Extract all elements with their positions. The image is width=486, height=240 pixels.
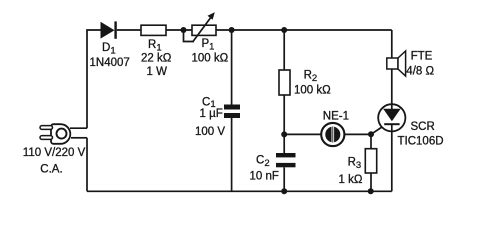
resistor R2 branch <box>279 30 290 134</box>
node junction dot R2 branch top <box>281 27 287 33</box>
thyristor SCR TIC106D <box>378 104 405 131</box>
svg-text:C2: C2 <box>256 155 270 170</box>
svg-text:10 nF: 10 nF <box>250 171 279 183</box>
wire R3 to bottom rail <box>370 173 372 191</box>
svg-text:R3: R3 <box>348 156 362 171</box>
svg-text:4/8 Ω: 4/8 Ω <box>406 66 434 78</box>
label FTE value <box>406 50 434 77</box>
diode D1 <box>101 21 116 38</box>
svg-text:100 kΩ: 100 kΩ <box>192 53 229 65</box>
label mains voltage <box>23 147 86 175</box>
neon lamp NE-1 <box>321 123 344 146</box>
capacitor C1 branch <box>224 30 240 191</box>
label D1 value <box>90 42 130 69</box>
svg-text:NE-1: NE-1 <box>323 110 349 122</box>
label R1 value <box>141 39 172 78</box>
node junction dot R2/NE-1/C2 <box>281 131 287 137</box>
svg-text:C.A.: C.A. <box>40 163 62 175</box>
wire P1 to top-right corner <box>216 29 392 31</box>
node junction dot C1 branch top <box>229 27 235 33</box>
AC plug 110V/220V mains <box>40 124 87 144</box>
potentiometer P1 <box>184 12 217 41</box>
svg-text:R2: R2 <box>304 69 318 84</box>
wire right rail top (corner to speaker) <box>391 30 393 58</box>
wire bottom rail <box>87 190 392 192</box>
wire R2 node to NE-1 <box>284 133 321 135</box>
label SCR type <box>398 121 444 148</box>
node junction dot SCR gate <box>368 131 374 137</box>
svg-text:1 W: 1 W <box>147 66 168 78</box>
wire diode cathode to R1 <box>117 29 141 31</box>
svg-text:1 µF: 1 µF <box>200 108 223 120</box>
loudspeaker FTE <box>387 51 406 104</box>
node junction dot R3 bottom on rail <box>368 188 374 194</box>
svg-text:TIC106D: TIC106D <box>398 136 444 148</box>
svg-text:R1: R1 <box>148 39 162 54</box>
wire SCR gate diagonal <box>371 127 382 134</box>
svg-text:110 V/220 V: 110 V/220 V <box>23 147 86 159</box>
capacitor C2 <box>276 134 296 191</box>
resistor R3 <box>365 149 376 173</box>
wire NE-1 to gate node <box>344 133 371 135</box>
label R2 value <box>294 69 331 96</box>
svg-text:D1: D1 <box>102 42 116 57</box>
svg-text:22 kΩ: 22 kΩ <box>141 53 172 65</box>
svg-text:SCR: SCR <box>411 121 435 133</box>
svg-text:100 kΩ: 100 kΩ <box>294 84 331 96</box>
wire R1 to P1 <box>166 29 192 31</box>
svg-text:FTE: FTE <box>411 50 433 62</box>
svg-text:1N4007: 1N4007 <box>90 57 130 69</box>
wire left rail lower (plug to bottom-left corner) <box>86 138 88 192</box>
resistor R1 <box>141 25 166 35</box>
svg-text:1 kΩ: 1 kΩ <box>339 174 363 186</box>
wire top rail left segment (corner to diode anode) <box>87 30 101 128</box>
svg-text:P1: P1 <box>202 38 215 53</box>
wire SCR cathode to bottom rail corner <box>391 131 393 191</box>
svg-text:100 V: 100 V <box>195 126 225 138</box>
node junction dot at P1 left <box>181 27 187 33</box>
label C1 value <box>195 97 225 139</box>
label R3 value <box>339 156 363 186</box>
wire gate node to R3 <box>370 134 372 148</box>
node junction dot C2 bottom on rail <box>281 188 287 194</box>
label C2 value <box>250 155 279 183</box>
label P1 value <box>192 38 229 65</box>
